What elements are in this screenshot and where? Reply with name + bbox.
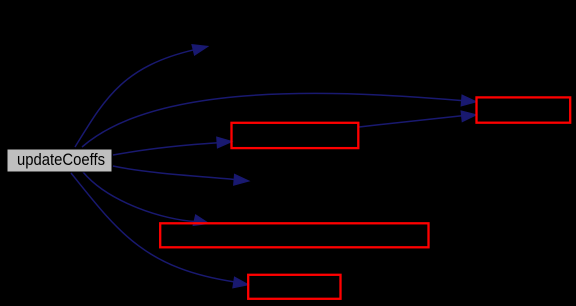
wire updateCoeffs to top node: [75, 50, 194, 147]
node arrowhead into A lower: [461, 111, 477, 122]
node arrowhead into A upper: [461, 95, 476, 106]
wire updateCoeffs to box A: [82, 93, 464, 147]
node updateCoeffs: [7, 149, 112, 172]
wire updateCoeffs to box C: [83, 172, 196, 222]
node arrowhead middle: [234, 174, 249, 185]
node arrowhead into C: [193, 215, 209, 226]
wire updateCoeffs to box D: [71, 173, 235, 282]
wire updateCoeffs to box B: [113, 143, 218, 155]
node arrowhead into B: [217, 137, 232, 148]
node A top right box: [477, 97, 571, 122]
svg-text:updateCoeffs: updateCoeffs: [17, 150, 105, 169]
node arrowhead top: [192, 45, 208, 56]
wire box B to box A: [359, 116, 462, 127]
node C wide bottom box: [160, 223, 428, 247]
node B middle box: [232, 123, 359, 148]
node arrowhead into D: [233, 277, 249, 288]
node D bottom box: [248, 275, 340, 299]
wire updateCoeffs to middle hidden node: [113, 166, 235, 180]
